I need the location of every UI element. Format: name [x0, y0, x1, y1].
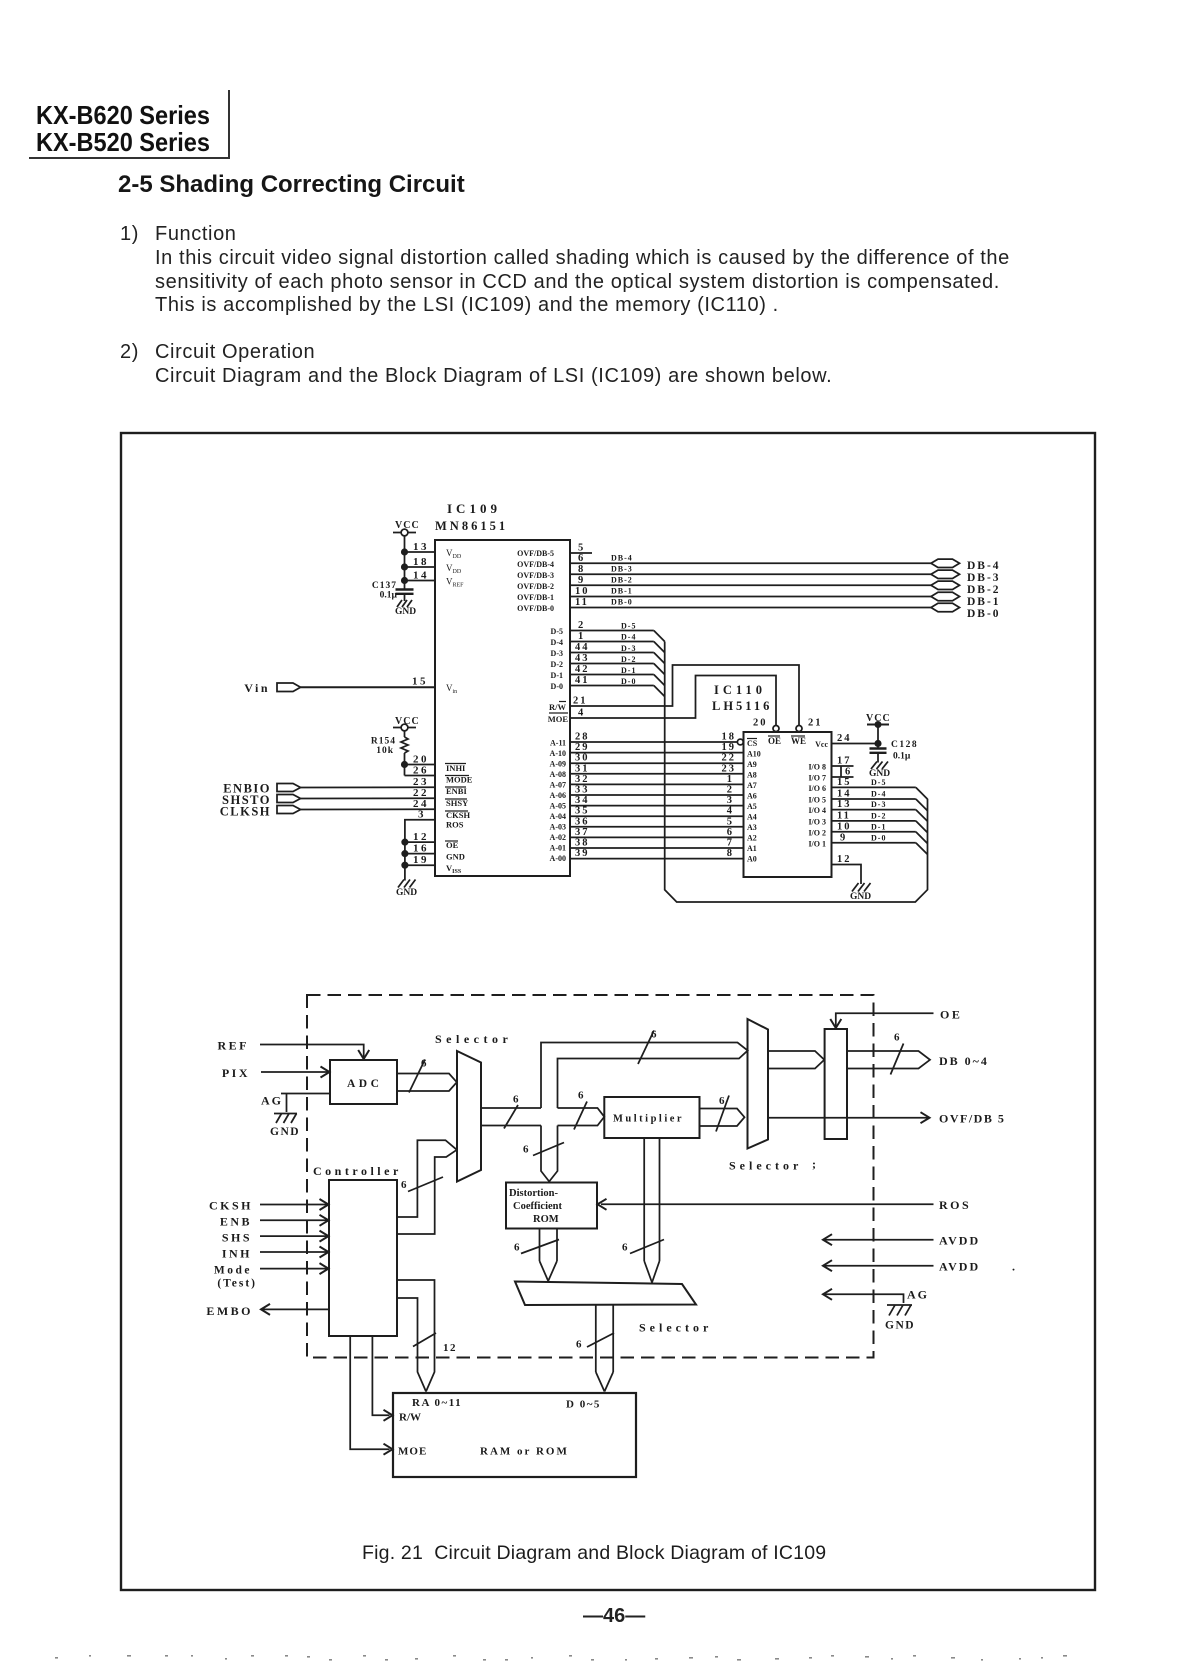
svg-text:10: 10	[575, 586, 590, 597]
node CLKSH connector	[220, 805, 301, 819]
svg-text:A-10: A-10	[550, 749, 566, 758]
node SHSTO connector	[222, 793, 300, 807]
svg-text:I/O 6: I/O 6	[808, 784, 826, 793]
svg-text:A5: A5	[747, 802, 757, 811]
svg-text:DB 0~4: DB 0~4	[939, 1054, 989, 1068]
capacitor C137 0.1u	[372, 581, 414, 601]
wire Vcc pin24	[832, 733, 881, 746]
svg-text:D-0: D-0	[551, 682, 563, 691]
svg-text:MN86151: MN86151	[435, 519, 508, 533]
resistor R154 10k	[371, 737, 408, 776]
svg-text:35: 35	[575, 806, 590, 817]
svg-text:12: 12	[413, 831, 429, 843]
pin label overlines	[445, 764, 469, 842]
node ENB input	[220, 1215, 329, 1229]
pin numbers IC109 A-side 28..39	[575, 732, 590, 860]
node DB-0 output connector	[931, 603, 1001, 620]
svg-text:I/O 4: I/O 4	[808, 806, 826, 815]
svg-text:I/O 8: I/O 8	[808, 763, 826, 772]
ground (AG right)	[885, 1305, 915, 1332]
svg-text:Vcc: Vcc	[815, 740, 828, 749]
wire pin19 Vss	[402, 854, 435, 868]
svg-text:MOE: MOE	[548, 714, 569, 724]
bus riser and top run to selector2	[541, 1043, 748, 1109]
svg-text:EMBO: EMBO	[206, 1304, 253, 1318]
svg-text:8: 8	[727, 848, 734, 859]
svg-text:A0: A0	[747, 855, 757, 864]
bus cross to multiplier	[558, 1108, 605, 1126]
svg-text:9: 9	[578, 575, 585, 586]
svg-text:(Test): (Test)	[217, 1278, 257, 1290]
section title	[118, 171, 465, 199]
svg-text:D-5: D-5	[551, 627, 563, 636]
svg-text:6: 6	[651, 1029, 657, 1041]
svg-text:CKSH: CKSH	[209, 1199, 253, 1213]
RAM or ROM block	[393, 1393, 636, 1477]
svg-text:37: 37	[575, 827, 590, 838]
scan speckles	[55, 1655, 1067, 1661]
svg-text:21: 21	[808, 718, 823, 729]
bus width 12 tick	[413, 1333, 457, 1354]
svg-text:.: .	[1012, 1260, 1015, 1274]
wire CLKSH pin24	[301, 798, 436, 810]
svg-text:17: 17	[837, 756, 852, 767]
svg-text:0.1µ: 0.1µ	[380, 591, 398, 601]
svg-text:A10: A10	[747, 750, 761, 759]
wire DB-1 pin10	[569, 586, 932, 597]
svg-text:I/O 7: I/O 7	[808, 774, 826, 783]
node AG input	[261, 1094, 283, 1108]
pin label MOE	[548, 713, 569, 724]
svg-text:31: 31	[575, 764, 590, 775]
node EMBO output	[206, 1304, 329, 1318]
svg-text:6: 6	[576, 1339, 582, 1351]
svg-text:OVF/DB-0: OVF/DB-0	[517, 604, 554, 613]
selector1 trapezoid	[435, 1032, 512, 1182]
svg-text:D-5: D-5	[621, 622, 636, 631]
svg-text:D-2: D-2	[621, 655, 636, 664]
svg-text:A-04: A-04	[550, 812, 566, 821]
svg-text:D-0: D-0	[621, 677, 636, 686]
svg-text:INH: INH	[222, 1247, 252, 1261]
svg-text:I/O 3: I/O 3	[808, 818, 826, 827]
svg-text:D-1: D-1	[551, 671, 563, 680]
svg-text:;: ;	[812, 1157, 816, 1171]
wire D-0 pin9	[832, 833, 928, 855]
svg-text:18: 18	[722, 732, 737, 743]
wire pin3 ROS loop	[405, 809, 435, 881]
ground (IC110 pin12)	[850, 883, 871, 902]
svg-text:42: 42	[575, 664, 590, 675]
svg-text:D-4: D-4	[551, 638, 563, 647]
wire D-bus loop around IC110	[665, 642, 928, 903]
svg-text:A-09: A-09	[550, 760, 566, 769]
svg-text:10k: 10k	[376, 746, 394, 756]
svg-text:20: 20	[753, 718, 768, 729]
ground (C137)	[395, 600, 416, 617]
svg-text:OVF/DB-5: OVF/DB-5	[517, 549, 554, 558]
bus width 6 tick	[409, 1058, 427, 1093]
svg-text:GND: GND	[396, 888, 417, 898]
svg-text:8: 8	[578, 564, 585, 575]
wire ENBIO pin23	[301, 776, 436, 788]
svg-text:GND: GND	[850, 892, 871, 902]
wire SHSTO pin22	[301, 787, 436, 799]
svg-text:VREF: VREF	[446, 577, 464, 589]
svg-text:REF: REF	[218, 1039, 250, 1053]
svg-text:MOE: MOE	[398, 1446, 427, 1458]
svg-text:D 0~5: D 0~5	[566, 1399, 601, 1411]
svg-text:IC109: IC109	[447, 501, 501, 516]
svg-text:D-3: D-3	[551, 649, 563, 658]
svg-text:14: 14	[837, 789, 852, 800]
ROM Distortion-Coefficient block	[506, 1183, 597, 1229]
node SHS input	[222, 1231, 329, 1245]
svg-text:A2: A2	[747, 834, 757, 843]
node DB-4 output connector	[931, 559, 1001, 572]
svg-text:A7: A7	[747, 781, 757, 790]
IC110 pin labels CS A10..A0	[747, 739, 761, 864]
node DB-2 output connector	[931, 581, 1001, 596]
svg-text:44: 44	[575, 642, 590, 653]
svg-text:D-4: D-4	[621, 633, 636, 642]
svg-text:15: 15	[837, 777, 852, 788]
svg-text:6: 6	[894, 1032, 900, 1044]
bus width 6 tick	[638, 1029, 657, 1065]
svg-text:R/W: R/W	[399, 1412, 421, 1424]
svg-text:A4: A4	[747, 813, 757, 822]
selector2 trapezoid	[729, 1019, 816, 1173]
svg-text:AVDD: AVDD	[939, 1260, 980, 1274]
svg-text:DB-3: DB-3	[967, 572, 1001, 584]
wire DB-3 pin8	[569, 564, 932, 575]
svg-text:ENB: ENB	[220, 1215, 252, 1229]
svg-text:VDD: VDD	[446, 563, 462, 575]
wire D-2 pin43	[569, 653, 665, 675]
svg-text:RA 0~11: RA 0~11	[412, 1397, 462, 1409]
svg-text:6: 6	[401, 1179, 407, 1191]
IC109 pin names Vdd Vdd Vref	[446, 548, 464, 695]
wire AVDD 2	[823, 1260, 1015, 1274]
selector3 parallelogram	[515, 1282, 712, 1335]
bus width 6 tick	[401, 1177, 443, 1192]
figure frame	[121, 433, 1095, 1590]
pin label R/W	[549, 702, 567, 713]
svg-text:2: 2	[578, 620, 585, 631]
svg-text:VDD: VDD	[446, 548, 462, 560]
wire pin14 Vref	[402, 570, 435, 584]
svg-text:4: 4	[727, 806, 734, 817]
svg-text:C128: C128	[891, 740, 918, 750]
wire D-4 pin14	[832, 789, 928, 811]
svg-text:OVF/DB 5: OVF/DB 5	[939, 1112, 1005, 1126]
svg-text:A-02: A-02	[550, 833, 566, 842]
svg-text:Distortion-: Distortion-	[509, 1188, 558, 1199]
ground (IC109 lower)	[396, 880, 417, 899]
wire ROS to ROM	[598, 1198, 972, 1212]
svg-text:D-5: D-5	[871, 778, 886, 787]
svg-text:5: 5	[578, 543, 585, 554]
pin OE bubble pin20	[753, 718, 779, 732]
svg-text:DB-3: DB-3	[611, 565, 633, 574]
node Vin connector	[244, 681, 300, 695]
svg-text:OE: OE	[768, 736, 781, 746]
block diagram dashed boundary	[307, 995, 874, 1358]
bus width 6 tick	[514, 1240, 559, 1254]
svg-text:6: 6	[513, 1094, 519, 1106]
svg-text:6: 6	[421, 1058, 427, 1070]
paragraph 1	[120, 223, 139, 247]
wire OVF/DB 5 output	[768, 1112, 1005, 1126]
svg-text:D-1: D-1	[871, 823, 886, 832]
svg-text:22: 22	[722, 753, 737, 764]
capacitor C128 0.1u	[870, 740, 919, 763]
node INH input	[222, 1247, 329, 1261]
svg-text:C137: C137	[372, 581, 397, 591]
svg-text:33: 33	[575, 785, 590, 796]
svg-text:5: 5	[727, 817, 734, 828]
wire I/O8 pin17 stub	[832, 756, 854, 767]
svg-text:A8: A8	[747, 771, 757, 780]
svg-text:D-2: D-2	[551, 660, 563, 669]
wire OE to latch	[830, 1008, 962, 1029]
svg-text:28: 28	[575, 732, 590, 743]
svg-text:41: 41	[575, 675, 590, 686]
IC109 pin labels D-5..D-0	[551, 627, 563, 691]
svg-text:0.1µ: 0.1µ	[893, 752, 911, 762]
svg-text:A-03: A-03	[550, 823, 566, 832]
svg-text:AG: AG	[907, 1288, 929, 1302]
node PIX input	[222, 1066, 250, 1080]
address wires A-11..A-00 with pin numbers	[569, 742, 744, 859]
svg-text:6: 6	[727, 827, 734, 838]
wire controller MOE to RAM	[350, 1336, 392, 1455]
svg-text:IC110: IC110	[714, 683, 766, 697]
svg-text:29: 29	[575, 742, 590, 753]
node Mode (Test) input	[214, 1263, 329, 1289]
svg-text:32: 32	[575, 774, 590, 785]
svg-text:26: 26	[413, 765, 429, 777]
svg-text:DB-0: DB-0	[611, 598, 633, 607]
page number	[583, 1605, 645, 1628]
svg-text:15: 15	[412, 676, 428, 688]
paragraph 2	[120, 341, 139, 365]
svg-text:2: 2	[727, 785, 734, 796]
svg-text:6: 6	[845, 767, 850, 778]
wire DB-0 pin11	[569, 597, 932, 608]
svg-text:CS: CS	[747, 739, 758, 748]
wire R/W pin21 to WE	[569, 665, 799, 726]
wire D-0 pin41	[569, 675, 665, 697]
svg-text:16: 16	[413, 843, 429, 855]
svg-text:A-08: A-08	[550, 770, 566, 779]
svg-text:DB-1: DB-1	[611, 587, 633, 596]
wire pin16 GND	[402, 843, 435, 857]
bus width 6 tick	[622, 1240, 664, 1254]
svg-text:WE: WE	[791, 736, 806, 746]
bus latch to DB 0~4	[847, 1051, 989, 1069]
node ENBIO connector	[223, 782, 300, 796]
svg-text:GND: GND	[270, 1126, 300, 1138]
wire D-4 pin1	[569, 631, 665, 653]
svg-text:A-06: A-06	[550, 791, 566, 800]
wire D-5 pin2	[569, 620, 665, 642]
svg-text:A-00: A-00	[550, 854, 566, 863]
wire pin18 Vdd	[402, 556, 435, 570]
bus selector3 to RAM	[596, 1305, 613, 1392]
svg-text:6: 6	[578, 1090, 584, 1102]
svg-text:I/O 1: I/O 1	[808, 840, 826, 849]
svg-text:Selector: Selector	[435, 1032, 512, 1046]
svg-text:PIX: PIX	[222, 1066, 250, 1080]
pin numbers IC110 left 18 19 22 23 1..8	[722, 732, 737, 860]
svg-text:38: 38	[575, 838, 590, 849]
wire AG with ground	[823, 1288, 929, 1304]
bus width 6 tick	[576, 1333, 614, 1351]
svg-text:Selector: Selector	[729, 1159, 802, 1173]
wire D-5 pin15	[832, 777, 928, 799]
svg-text:INHI: INHI	[446, 763, 466, 773]
IC109 left pin labels INHI MODE ENBI SHST CKSH ROS OE GND Vss	[446, 763, 473, 875]
pin WE bubble pin21	[796, 718, 823, 732]
svg-text:19: 19	[413, 854, 429, 866]
VCC rail (C128)	[866, 713, 891, 749]
bus multiplier down to selector3	[644, 1138, 659, 1283]
svg-text:A-01: A-01	[550, 844, 566, 853]
svg-text:D-4: D-4	[871, 790, 886, 799]
svg-text:10: 10	[837, 822, 852, 833]
svg-text:CLKSH: CLKSH	[220, 805, 271, 819]
svg-text:OVF/DB-2: OVF/DB-2	[517, 582, 554, 591]
svg-text:ROM: ROM	[533, 1214, 559, 1225]
svg-text:12: 12	[443, 1342, 457, 1354]
bus width 6 tick	[574, 1090, 587, 1130]
svg-text:11: 11	[575, 597, 589, 608]
wire D-2 pin11	[832, 811, 928, 833]
svg-text:43: 43	[575, 653, 590, 664]
svg-text:Controller: Controller	[313, 1164, 402, 1178]
ground (C128)	[869, 762, 890, 780]
figure caption	[362, 1542, 826, 1565]
wire DB-4 pin6	[569, 553, 932, 564]
wire D-3 pin44	[569, 642, 665, 664]
svg-text:6: 6	[719, 1095, 725, 1107]
header model box	[36, 100, 210, 131]
svg-text:A-11: A-11	[550, 739, 566, 748]
svg-text:11: 11	[837, 811, 851, 822]
svg-text:34: 34	[575, 795, 590, 806]
svg-text:A6: A6	[747, 792, 757, 801]
node DB-1 output connector	[931, 592, 1001, 608]
svg-text:D-3: D-3	[871, 800, 886, 809]
bus multiplier to selector2	[700, 1109, 745, 1127]
wire pin12 OE	[402, 831, 435, 845]
IC110 pin labels Vcc I/O8..I/O1	[808, 740, 828, 849]
controller block	[313, 1164, 402, 1336]
svg-text:6: 6	[514, 1242, 520, 1254]
wire REF to ADC	[260, 1045, 369, 1060]
wire AVDD 1	[823, 1234, 980, 1248]
wire PIX to ADC	[261, 1067, 330, 1078]
svg-text:OVF/DB-1: OVF/DB-1	[517, 593, 554, 602]
IC109 right pin labels OVF/DB-5..0	[517, 549, 554, 613]
svg-text:AG: AG	[261, 1094, 283, 1108]
svg-text:OVF/DB-3: OVF/DB-3	[517, 571, 554, 580]
svg-text:AVDD: AVDD	[939, 1234, 980, 1248]
svg-text:DB-4: DB-4	[611, 554, 633, 563]
bus width 6 tick	[891, 1032, 904, 1075]
wire DB-2 pin9	[569, 575, 932, 586]
wire MOE pin4 to OE	[569, 676, 776, 726]
wire pin12 GND	[832, 854, 862, 884]
wire D-1 pin42	[569, 664, 665, 686]
bus selector1 output left arm	[481, 1108, 541, 1126]
svg-text:DB-4: DB-4	[967, 560, 1001, 572]
svg-text:GND: GND	[446, 852, 465, 862]
svg-text:21: 21	[573, 696, 588, 707]
svg-text:Mode: Mode	[214, 1265, 252, 1277]
IC110 pin labels OE WE	[768, 736, 806, 746]
wire controller R/W to RAM	[372, 1336, 392, 1421]
node CKSH input	[209, 1199, 329, 1213]
svg-text:9: 9	[840, 833, 847, 844]
svg-text:A-05: A-05	[550, 802, 566, 811]
svg-text:Vin: Vin	[446, 683, 457, 695]
svg-text:DB-1: DB-1	[967, 596, 1001, 608]
svg-text:I/O 2: I/O 2	[808, 829, 826, 838]
svg-text:OVF/DB-4: OVF/DB-4	[517, 560, 554, 569]
svg-text:ROS: ROS	[446, 820, 464, 830]
wire pin20 INHI	[402, 754, 435, 768]
bus width 6 tick	[716, 1095, 729, 1132]
svg-text:ADC: ADC	[347, 1078, 382, 1090]
svg-text:A-07: A-07	[550, 781, 566, 790]
svg-text:23: 23	[722, 764, 737, 775]
svg-text:13: 13	[837, 799, 852, 810]
VCC rail (R154)	[393, 716, 420, 737]
node REF input	[218, 1039, 250, 1053]
wire AG to ADC	[281, 1094, 330, 1113]
wire D-1 pin10	[832, 822, 928, 844]
bus ADC to selector1	[397, 1074, 457, 1092]
VCC rail (top-left)	[393, 520, 420, 589]
svg-text:24: 24	[837, 733, 852, 744]
svg-text:Selector: Selector	[639, 1321, 712, 1335]
svg-text:D-2: D-2	[871, 812, 886, 821]
svg-text:1: 1	[578, 631, 585, 642]
svg-text:D-0: D-0	[871, 834, 886, 843]
svg-text:A3: A3	[747, 823, 757, 832]
svg-text:R/W: R/W	[549, 702, 567, 712]
svg-text:OE: OE	[940, 1008, 962, 1022]
bus controller to selector1	[397, 1140, 457, 1234]
svg-text:36: 36	[575, 817, 590, 828]
svg-text:SHS: SHS	[222, 1231, 252, 1245]
svg-text:I/O 5: I/O 5	[808, 796, 826, 805]
wire I/O7 pin16 stub	[832, 766, 854, 778]
bus width 6 tick	[504, 1094, 519, 1129]
svg-text:Vin: Vin	[244, 681, 270, 695]
svg-text:1: 1	[727, 774, 734, 785]
svg-text:RAM or ROM: RAM or ROM	[480, 1446, 569, 1458]
wire Vin pin15	[301, 676, 436, 688]
bus down to ROM	[541, 1126, 558, 1182]
svg-text:30: 30	[575, 753, 590, 764]
svg-text:D-3: D-3	[621, 644, 636, 653]
svg-text:LH5116: LH5116	[712, 699, 772, 713]
latch block	[825, 1029, 847, 1139]
wire pin13 Vdd	[402, 541, 435, 555]
